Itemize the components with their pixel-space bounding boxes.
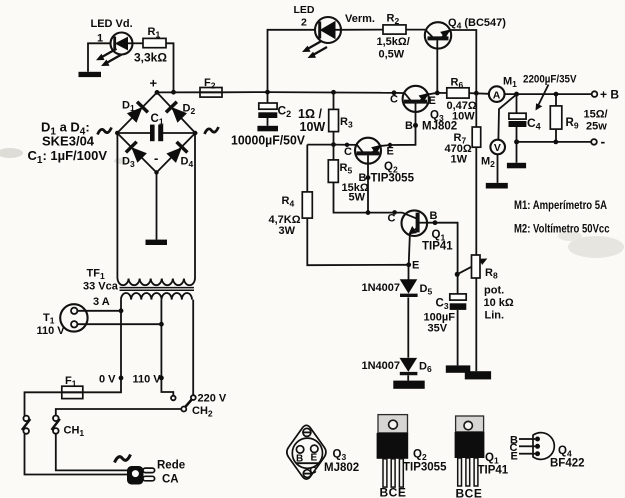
ground (M2) [486,183,508,189]
ammeter M1 [489,86,505,102]
svg-text:LED Vd.: LED Vd. [91,18,133,30]
node R9 bottom junction [553,140,558,145]
svg-text:C: C [390,94,398,106]
svg-text:Rede: Rede [157,460,185,472]
node Q2 base dot [366,175,371,180]
svg-text:25w: 25w [586,121,607,133]
node T1 top junction [119,308,124,313]
transistor Q1 [402,210,428,264]
wire primary left end down (0V line) [83,300,121,393]
svg-text:5W: 5W [349,192,366,204]
package Q1 body [455,432,485,458]
svg-text:0,5W: 0,5W [379,49,405,61]
transistor Q3 [394,86,435,126]
node junction R1/bus [171,90,176,95]
svg-text:TIP41: TIP41 [478,465,509,477]
svg-text:M2: Voltímetro 50Vcc: M2: Voltímetro 50Vcc [514,224,610,236]
ground (C4) [507,163,526,169]
resistor R1 [143,38,166,47]
resistor R4 [302,192,312,218]
svg-text:1Ω /: 1Ω / [298,107,322,121]
wire R9 bottom lead [555,129,557,142]
ground (C3) [446,365,471,372]
node Q2 collector junction [331,142,336,147]
capacitor C4 [509,94,527,163]
LED1 light arrows [96,49,122,66]
wire minus rail [517,141,592,143]
package Q2 TO-220 tab [378,415,408,433]
socket T1 [60,304,87,331]
package Q1 TO-220 tab [456,416,484,432]
node 110V tap [159,376,164,381]
wire F1 to left pole switch [25,392,62,415]
svg-text:E: E [311,453,318,464]
svg-text:35V: 35V [428,323,448,335]
wire CH2 pivot rail to CH1 [56,409,182,416]
resistor R9 [550,106,562,129]
svg-text:2: 2 [301,17,307,29]
svg-text:E: E [412,260,419,272]
diode D3 [126,142,148,164]
svg-text:A: A [493,89,501,101]
wire bridge bottom to ground [156,173,158,240]
node R9 top junction [554,92,559,97]
wire R9 top lead [555,94,557,106]
transformer TF1 secondary winding [118,279,196,286]
svg-text:1N4007: 1N4007 [362,282,401,294]
package Q3 TO-3 flange [287,425,326,479]
package Q2 legs [383,459,403,487]
package Q3 pin B [296,446,303,453]
package Q4 TO-92 outline [533,433,554,460]
svg-text:E: E [387,146,394,158]
node Q2 base / drive junction [366,210,371,215]
node bridge + vertex [155,90,160,95]
switch CH1 right pole [52,416,60,434]
svg-text:B: B [430,210,438,222]
resistor R7 [472,127,481,147]
svg-text:3W: 3W [279,225,296,237]
wire Q2 collector node across to R4 [307,144,333,146]
svg-text:1: 1 [97,33,103,45]
svg-text:MJ802: MJ802 [324,462,359,474]
capacitor C3 [450,294,467,366]
svg-text:Verm.: Verm. [345,13,375,25]
svg-text:33 Vca: 33 Vca [83,281,119,293]
node R3 junction [331,90,336,95]
node R6 right / R7 junction [474,91,479,96]
package Q3 mounting hole top [303,428,311,436]
switch left pole of CH1 [22,416,30,434]
wire primary center tap down (110V line) [161,300,173,396]
plug prong top [143,468,155,473]
wire R8 to ground [475,278,477,371]
wire LED1 to R1 [128,42,143,44]
svg-text:+ B: + B [600,88,619,102]
wire Q2 collector node down to R5 [333,145,335,160]
capacitor C2 [258,92,277,126]
wire LED1 cathode to ground [88,43,115,72]
wire R6 to M1 [469,92,489,95]
scan smudge artifacts [0,148,624,258]
wire CH1 down to plug [56,434,128,471]
wire diagonal M1 node to M2 [498,95,516,140]
svg-text:110 V: 110 V [133,374,162,386]
wire bus to R3 [333,92,335,109]
wire R2 to Q4 base [406,29,425,31]
package Q1 legs [458,458,478,486]
svg-text:E: E [511,451,518,463]
svg-text:M1: Amperímetro 5A: M1: Amperímetro 5A [514,200,607,212]
svg-text:2200µF/35V: 2200µF/35V [523,74,577,86]
wire Q4 emitter to R6 right node [450,30,476,93]
wire R7 riser [475,93,477,127]
ground (bridge) [146,240,168,245]
ground (R8) [465,371,491,379]
diode D6 (1N4007) [400,358,418,374]
arrow from 2200uF label to C4 [536,85,549,111]
wire R4 bottom to Q1 emitter node [307,218,408,265]
LED2 light arrows [302,41,327,58]
AC tilde above plug [115,455,131,463]
node R8 wiper junction [455,272,460,277]
wire bridge right vertex down to secondary [194,133,196,279]
svg-text:TIP3055: TIP3055 [371,173,415,185]
svg-text:V: V [494,142,501,154]
resistor R6 [447,88,469,98]
resistor R2 [383,25,406,34]
node C4 top junction [514,92,519,97]
svg-text:15Ω/: 15Ω/ [584,109,608,121]
terminal +B [592,91,598,97]
svg-text:TIP3055: TIP3055 [403,462,447,474]
node Q2 emitter dot [388,143,392,147]
diode D1 [126,102,148,124]
node 0V tap [119,376,124,381]
svg-text:1N4007: 1N4007 [362,360,401,372]
svg-text:1,5kΩ/: 1,5kΩ/ [377,36,410,48]
svg-text:pot.: pot. [484,285,504,297]
svg-text:220 V: 220 V [198,393,227,405]
bridge rectifier diamond wires [117,92,195,172]
switch CH2 terminal 220V [191,395,196,400]
wire D6 to ground [407,375,409,380]
LED 1 (Vd.) [111,33,133,55]
svg-text:E: E [429,95,436,107]
node Q1 base dot [433,220,438,225]
wire left pole down to bottom rail [25,434,128,475]
wire LED2 branch riser [268,30,320,92]
node C4 bottom junction [514,139,519,144]
svg-text:10 kΩ: 10 kΩ [484,297,514,309]
AC tilde right of bridge [205,127,219,134]
wire R4 top riser [306,145,308,192]
switch CH2 lever [185,400,191,407]
wire F2 to C2 node [222,91,268,93]
wire R1 to bus [166,43,174,92]
fuse F2 [200,88,222,98]
wire LED2 to R2 [336,29,384,31]
node T1 bottom junction [159,322,164,327]
wire bridge plus to F2 [157,91,200,93]
svg-text:1W: 1W [451,154,468,166]
wire R5 down and across to Q1 collector [334,182,403,212]
svg-text:3,3kΩ: 3,3kΩ [134,51,167,65]
fuse F1 [62,386,83,398]
svg-text:10W: 10W [300,120,326,134]
wire D5 to D6 [407,297,409,357]
package Q3 mounting hole bottom [303,470,311,478]
svg-text:-: - [154,151,158,166]
switch CH2 pivot [181,407,186,412]
wire bridge left vertex down to secondary [116,133,118,279]
plug Rede CA body [127,466,144,485]
main bus wire C2 node to Q3 collector node [268,91,395,94]
wire T1 bottom pin to 110V line [77,323,161,325]
wire M2 to ground [497,154,499,183]
node bridge right vertex [193,131,197,135]
svg-text:C: C [310,466,317,477]
svg-text:BCE: BCE [380,486,407,498]
wire Q3 emitter node to R6 [437,92,447,94]
package Q3 can circle [292,438,322,468]
potentiometer R8 body [472,255,481,278]
transistor Q2 [334,138,391,214]
package Q4 pin leads [519,439,535,454]
wire R3 to Q2 collector node [333,132,335,145]
voltmeter M2 [490,140,505,155]
svg-text:SKE3/04: SKE3/04 [42,134,95,149]
resistor R5 [328,160,338,183]
capacitor C1 [150,125,163,142]
svg-text:CA: CA [162,474,179,486]
ground (C2) [257,126,278,132]
potentiometer R8 wiper arrow [457,259,487,275]
wire primary right end down (220V line) [192,300,194,396]
node bridge bottom vertex [154,170,158,174]
diode D2 [166,102,188,124]
node Q3 collector junction [392,90,397,95]
switch CH2 terminal 110V [171,396,176,401]
wire Q1 base to divider [427,223,458,294]
wire R7 to R8 [475,147,477,255]
package Q4 pin dots [535,437,540,457]
transistor Q4 [425,22,451,93]
transformer TF1 core lines [120,288,195,291]
svg-text:B: B [405,120,413,132]
wire C1 to right vertex [163,132,195,134]
svg-text:LED: LED [294,4,315,16]
wire Q1 emitter down to D5 [408,265,410,280]
svg-text:BF422: BF422 [550,458,585,470]
package Q3 case chord line [296,462,320,464]
AC tilde left of bridge [98,128,112,135]
resistor R3 [329,109,339,131]
svg-text:10000µF/50V: 10000µF/50V [231,134,306,148]
plug prong bottom [143,476,155,481]
svg-text:-: - [601,134,606,150]
svg-text:10W: 10W [452,111,475,123]
svg-text:3 A: 3 A [93,296,110,308]
diode D5 (1N4007) [400,279,418,295]
svg-text:C: C [344,146,352,158]
svg-text:+: + [150,76,158,91]
node Q1 emitter junction [406,262,411,267]
node Q3 base [413,123,418,128]
wire T1 top pin to 0V line [77,310,121,312]
svg-text:Lin.: Lin. [485,310,505,322]
node bridge left vertex [115,131,119,135]
svg-text:BCE: BCE [456,487,483,498]
svg-text:TIP41: TIP41 [422,241,453,253]
transformer TF1 primary winding [121,293,192,300]
package Q2 body [377,433,409,459]
wire M1 to +B rail [505,93,593,95]
node Q3 emitter junction on bus [435,91,440,96]
svg-text:B: B [296,454,303,465]
node Q2 collector lead dot [345,143,349,147]
node Q1 collector lead dot [392,210,397,215]
package Q3 pin E [311,445,318,452]
ground (LED1) [79,72,102,77]
LED 2 (Verm.) [315,17,341,43]
ground (D6) [393,381,424,389]
svg-text:C: C [388,213,396,225]
svg-text:110 V: 110 V [37,325,66,337]
wire left vertex to C1 [117,132,150,134]
wire Q2 emitter to Q3 base [390,125,416,145]
terminal minus [591,139,597,145]
svg-text:0 V: 0 V [99,374,116,386]
diode D4 [166,142,188,164]
node C2/LED2 junction [265,90,270,95]
